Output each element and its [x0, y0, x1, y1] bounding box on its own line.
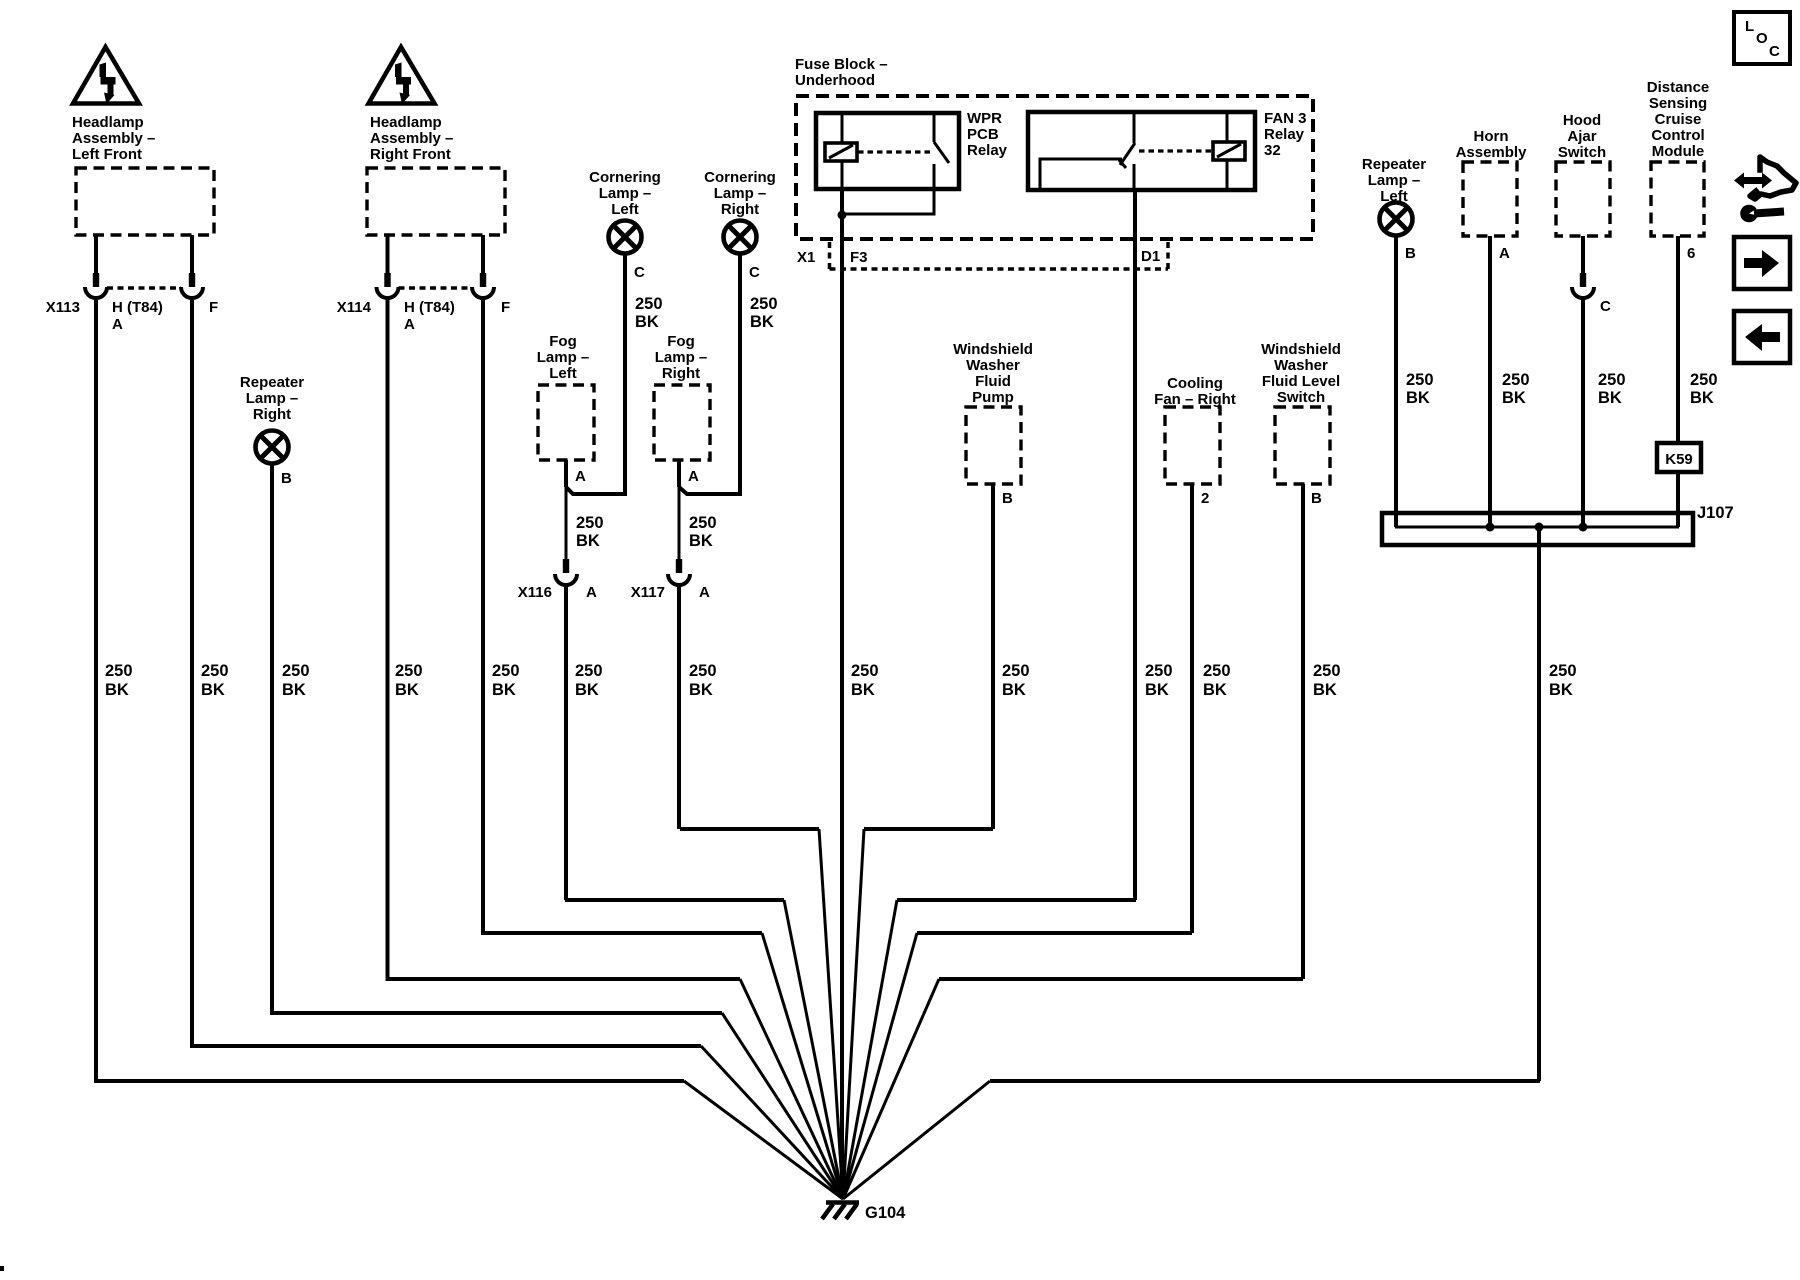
- svg-text:BK: BK: [1598, 389, 1622, 407]
- svg-text:6: 6: [1687, 245, 1695, 262]
- svg-text:X1: X1: [797, 249, 815, 266]
- svg-text:250: 250: [750, 295, 778, 313]
- svg-text:Lamp –: Lamp –: [655, 349, 708, 366]
- svg-text:BK: BK: [1313, 681, 1337, 699]
- connector X117 terminal: [676, 559, 682, 573]
- svg-text:X114: X114: [337, 299, 372, 316]
- junction dot tap: [1535, 523, 1544, 532]
- repeater lamp right symbol: [256, 431, 289, 464]
- svg-text:Cruise: Cruise: [1655, 111, 1702, 128]
- svg-text:BK: BK: [105, 681, 129, 699]
- svg-text:C: C: [1769, 43, 1780, 60]
- svg-text:Windshield: Windshield: [953, 341, 1033, 358]
- svg-text:250: 250: [1690, 371, 1718, 389]
- svg-text:K59: K59: [1665, 451, 1693, 468]
- svg-text:C: C: [749, 264, 760, 281]
- svg-text:250: 250: [1549, 662, 1577, 680]
- headlamp assembly left front box: [76, 168, 214, 235]
- svg-text:250: 250: [282, 662, 310, 680]
- cornering lamp right symbol: [724, 221, 757, 254]
- svg-text:H (T84): H (T84): [112, 299, 163, 316]
- wire J107 tap to ground: [990, 527, 1540, 1081]
- svg-text:BK: BK: [1549, 681, 1573, 699]
- svg-text:BK: BK: [1145, 681, 1169, 699]
- ground bus J107 inner bar: [1395, 526, 1679, 529]
- wire headlamp right pin A stub: [386, 235, 390, 274]
- horn assembly box: [1463, 162, 1517, 236]
- svg-text:250: 250: [576, 514, 604, 532]
- svg-text:250: 250: [201, 662, 229, 680]
- svg-text:B: B: [1311, 490, 1322, 507]
- svg-text:D1: D1: [1141, 248, 1160, 265]
- page corner artifact mark: [0, 1266, 4, 1271]
- svg-text:Right: Right: [721, 201, 759, 218]
- distance sensing cruise control module box: [1651, 162, 1704, 236]
- svg-text:Pump: Pump: [972, 389, 1014, 406]
- relay WPR coil: [825, 113, 857, 189]
- svg-text:Ajar: Ajar: [1567, 128, 1596, 145]
- svg-text:Left: Left: [611, 201, 639, 218]
- icon LOC box: [1734, 12, 1790, 64]
- svg-text:250: 250: [492, 662, 520, 680]
- wire headlamp right F to ground: [483, 297, 762, 933]
- svg-text:A: A: [586, 584, 597, 601]
- svg-text:PCB: PCB: [967, 126, 999, 143]
- wire distance module to K59: [1676, 236, 1680, 444]
- windshield washer fluid level switch box: [1275, 407, 1330, 484]
- svg-text:BK: BK: [575, 681, 599, 699]
- hood ajar connector terminal: [1580, 273, 1586, 287]
- svg-text:250: 250: [1598, 371, 1626, 389]
- relay WPR PCB box: [816, 113, 959, 189]
- wire headlamp right pin F stub: [481, 235, 485, 274]
- svg-text:Fog: Fog: [549, 333, 577, 350]
- svg-text:250: 250: [851, 662, 879, 680]
- svg-text:BK: BK: [635, 313, 659, 331]
- wire hood ajar stub: [1581, 236, 1585, 274]
- left arrow: [1745, 324, 1780, 351]
- svg-text:X116: X116: [518, 584, 552, 601]
- svg-text:250: 250: [689, 514, 717, 532]
- relay WPR switch: [934, 113, 949, 189]
- svg-text:Lamp –: Lamp –: [537, 349, 590, 366]
- relay FAN 3 box: [1028, 112, 1255, 190]
- relay WPR dashed link: [858, 150, 933, 153]
- svg-text:250: 250: [689, 662, 717, 680]
- connector X114 pin F terminal: [480, 273, 486, 287]
- svg-text:Left Front: Left Front: [72, 146, 142, 163]
- svg-text:BK: BK: [750, 313, 774, 331]
- connector X113 pin A terminal: [93, 273, 99, 287]
- wire hood ajar to J107: [1581, 297, 1585, 527]
- svg-text:Lamp –: Lamp –: [1368, 172, 1421, 189]
- ground G104 symbol: [822, 1203, 859, 1220]
- svg-text:Relay: Relay: [1264, 126, 1305, 143]
- svg-text:Repeater: Repeater: [1362, 156, 1426, 173]
- wire headlamp left F to ground: [192, 297, 701, 1046]
- svg-text:250: 250: [395, 662, 423, 680]
- svg-text:B: B: [281, 470, 292, 487]
- icon right arrow box: [1734, 237, 1790, 289]
- svg-text:BK: BK: [689, 532, 713, 550]
- svg-text:Fog: Fog: [667, 333, 695, 350]
- svg-text:BK: BK: [282, 681, 306, 699]
- windshield washer fluid pump box: [966, 407, 1021, 484]
- wire X116 to ground: [565, 584, 784, 900]
- svg-text:G104: G104: [865, 1204, 906, 1222]
- svg-text:Windshield: Windshield: [1261, 341, 1341, 358]
- svg-text:250: 250: [635, 295, 663, 313]
- svg-text:Module: Module: [1652, 143, 1705, 160]
- junction dot hood: [1579, 523, 1588, 532]
- svg-text:A: A: [404, 316, 415, 333]
- svg-text:A: A: [688, 468, 699, 485]
- svg-text:Fluid Level: Fluid Level: [1262, 373, 1340, 390]
- svg-text:Control: Control: [1651, 127, 1704, 144]
- wire fog lamp left to X116: [564, 460, 568, 487]
- svg-text:Right: Right: [253, 406, 291, 423]
- cornering lamp left symbol: [609, 221, 642, 254]
- ground fan diagonals right: [843, 829, 864, 1199]
- svg-text:J107: J107: [1697, 504, 1734, 522]
- svg-text:A: A: [112, 316, 123, 333]
- svg-text:B: B: [1002, 490, 1013, 507]
- warning triangle (headlamp left): [73, 47, 139, 104]
- cooling fan right box: [1165, 407, 1220, 484]
- svg-text:250: 250: [1203, 662, 1231, 680]
- relay FAN3 coil: [1213, 112, 1245, 190]
- svg-text:C: C: [634, 264, 645, 281]
- svg-text:Relay: Relay: [967, 142, 1008, 159]
- wire cornering lamp left: [566, 253, 625, 494]
- svg-text:BK: BK: [1502, 389, 1526, 407]
- connector strip left dotted edge: [828, 242, 832, 269]
- connector X113 dotted line: [107, 286, 181, 290]
- junction dot F3: [838, 211, 847, 220]
- svg-text:WPR: WPR: [967, 110, 1002, 127]
- svg-text:BK: BK: [395, 681, 419, 699]
- svg-text:A: A: [1499, 245, 1510, 262]
- wire headlamp left A to ground: [96, 297, 684, 1081]
- fuse block underhood box: [796, 96, 1313, 239]
- svg-text:250: 250: [1406, 371, 1434, 389]
- fog lamp left box: [538, 385, 594, 460]
- wire repeater left to J107: [1394, 235, 1398, 527]
- svg-text:A: A: [575, 468, 586, 485]
- wire K59 to J107: [1676, 472, 1680, 527]
- svg-text:BK: BK: [1406, 389, 1430, 407]
- svg-text:250: 250: [575, 662, 603, 680]
- wire headlamp left pin F stub: [190, 235, 194, 274]
- svg-text:Left: Left: [549, 365, 577, 382]
- svg-text:Headlamp: Headlamp: [370, 114, 442, 131]
- svg-text:Washer: Washer: [966, 357, 1020, 374]
- svg-text:Lamp –: Lamp –: [246, 390, 299, 407]
- svg-text:Assembly –: Assembly –: [370, 130, 453, 147]
- svg-text:Washer: Washer: [1274, 357, 1328, 374]
- svg-text:L: L: [1745, 18, 1754, 35]
- svg-text:250: 250: [1002, 662, 1030, 680]
- connector strip bottom dotted edge: [830, 267, 1169, 271]
- svg-text:X113: X113: [46, 299, 80, 316]
- svg-text:C: C: [1600, 298, 1611, 315]
- svg-text:Repeater: Repeater: [240, 374, 304, 391]
- svg-text:250: 250: [1145, 662, 1173, 680]
- wire WPR switch to junction: [842, 189, 934, 214]
- connector X113 pin F terminal: [189, 273, 195, 287]
- svg-text:Right: Right: [662, 365, 700, 382]
- svg-text:Cornering: Cornering: [589, 169, 661, 186]
- svg-text:BK: BK: [689, 681, 713, 699]
- svg-text:Assembly –: Assembly –: [72, 130, 155, 147]
- wire cornering lamp right: [679, 253, 740, 494]
- svg-text:Underhood: Underhood: [795, 72, 875, 89]
- svg-text:Sensing: Sensing: [1649, 95, 1707, 112]
- svg-text:32: 32: [1264, 142, 1281, 159]
- wire FAN3 D1 to ground: [897, 190, 1136, 900]
- wire X117 to ground: [679, 584, 819, 829]
- wire headlamp left pin A stub: [94, 235, 98, 274]
- connector X114 dotted line: [399, 286, 473, 290]
- svg-text:Fluid: Fluid: [975, 373, 1011, 390]
- svg-text:B: B: [1405, 245, 1416, 262]
- svg-text:Headlamp: Headlamp: [72, 114, 144, 131]
- svg-text:Horn: Horn: [1474, 128, 1509, 145]
- svg-text:F: F: [501, 299, 510, 316]
- svg-text:Cornering: Cornering: [704, 169, 776, 186]
- icon left arrow box: [1734, 311, 1790, 363]
- svg-text:Assembly: Assembly: [1456, 144, 1528, 161]
- wire level switch to ground: [939, 484, 1303, 979]
- icon hand with double arrow: [1734, 157, 1796, 222]
- wire WPR coil down: [840, 189, 844, 215]
- svg-text:FAN 3: FAN 3: [1264, 110, 1307, 127]
- relay FAN3 contact: [1040, 112, 1135, 190]
- right arrow: [1744, 250, 1779, 277]
- ground bus J107 outer box: [1382, 513, 1693, 545]
- wire fog lamp right to X117: [677, 460, 681, 487]
- svg-text:O: O: [1756, 30, 1768, 47]
- svg-text:Fuse Block –: Fuse Block –: [795, 56, 888, 73]
- connector X114 pin A terminal: [384, 273, 390, 287]
- svg-text:BK: BK: [1690, 389, 1714, 407]
- svg-text:BK: BK: [1002, 681, 1026, 699]
- svg-text:A: A: [699, 584, 710, 601]
- svg-text:Switch: Switch: [1277, 389, 1325, 406]
- svg-text:Lamp –: Lamp –: [599, 185, 652, 202]
- wire F3 to ground (straight): [840, 215, 844, 1199]
- svg-text:BK: BK: [201, 681, 225, 699]
- splice K59 box: [1657, 443, 1701, 472]
- svg-text:X117: X117: [631, 584, 665, 601]
- svg-text:Switch: Switch: [1558, 144, 1606, 161]
- svg-text:Hood: Hood: [1563, 112, 1601, 129]
- svg-text:F3: F3: [850, 249, 868, 266]
- svg-text:Right Front: Right Front: [370, 146, 451, 163]
- hood ajar switch box: [1556, 162, 1610, 236]
- headlamp assembly right front box: [367, 168, 505, 235]
- ground fan diagonals left: [684, 1081, 843, 1199]
- svg-text:Cooling: Cooling: [1167, 375, 1223, 392]
- wire horn to J107: [1488, 236, 1492, 527]
- svg-text:BK: BK: [851, 681, 875, 699]
- warning triangle (headlamp right): [369, 47, 435, 104]
- svg-text:H (T84): H (T84): [404, 299, 455, 316]
- wire repeater right to ground: [272, 463, 722, 1013]
- wire cooling fan to ground: [917, 484, 1192, 933]
- repeater lamp left symbol: [1380, 203, 1413, 236]
- svg-text:2: 2: [1201, 490, 1209, 507]
- svg-text:250: 250: [1313, 662, 1341, 680]
- svg-text:BK: BK: [576, 532, 600, 550]
- svg-text:BK: BK: [492, 681, 516, 699]
- svg-text:BK: BK: [1203, 681, 1227, 699]
- connector strip right dotted edge: [1166, 242, 1170, 269]
- junction dot horn: [1486, 523, 1495, 532]
- svg-text:F: F: [209, 299, 218, 316]
- connector X116 terminal: [563, 559, 569, 573]
- relay FAN3 dashed link: [1139, 149, 1211, 152]
- svg-text:Lamp –: Lamp –: [714, 185, 767, 202]
- wire pump to ground: [864, 484, 993, 829]
- fog lamp right box: [654, 385, 710, 460]
- svg-text:250: 250: [1502, 371, 1530, 389]
- svg-text:Distance: Distance: [1647, 79, 1710, 96]
- svg-text:250: 250: [105, 662, 133, 680]
- wire headlamp right A to ground: [388, 297, 741, 979]
